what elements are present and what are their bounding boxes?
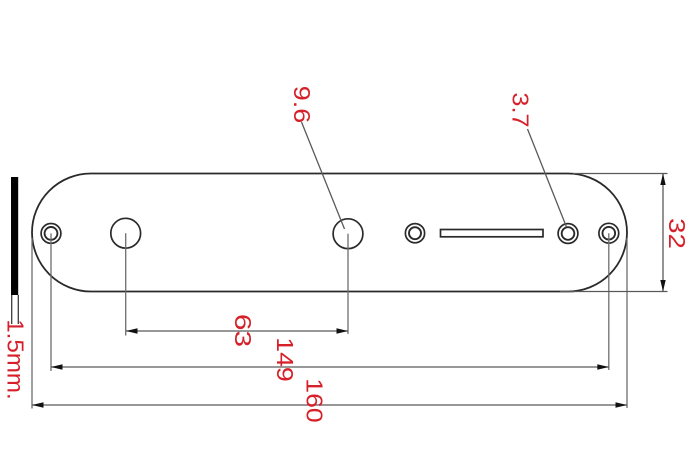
3.7 hole outer	[558, 224, 578, 244]
svg-text:32: 32	[663, 218, 688, 249]
switch mounting hole inner	[409, 227, 421, 239]
arrow 32 top	[660, 174, 665, 186]
plate outline (stadium shape)	[32, 174, 627, 292]
arrow 160 right	[616, 402, 628, 407]
extension line pot2	[347, 234, 349, 334]
extension line screw left	[50, 233, 52, 371]
pot hole 1	[111, 218, 141, 248]
thickness bar extension line left	[11, 295, 13, 324]
svg-text:1.5mm.: 1.5mm.	[3, 319, 28, 400]
svg-text:160: 160	[301, 378, 327, 422]
leader line 3.7	[528, 129, 567, 227]
svg-text:9.6: 9.6	[289, 86, 315, 123]
arrow 149 left	[51, 364, 63, 369]
extension line 32 bottom	[560, 291, 668, 293]
right screw hole outer	[599, 223, 619, 243]
dimension line 32	[662, 174, 664, 292]
side view thickness bar (1.5mm)	[11, 177, 18, 295]
thickness bar extension line right	[17, 295, 19, 324]
right screw hole inner	[603, 227, 616, 240]
dimension line 149	[51, 366, 609, 368]
arrow 32 bottom	[660, 280, 665, 292]
3.7 hole inner	[562, 227, 575, 240]
dimension line 63	[126, 330, 348, 332]
switch mounting hole outer	[405, 224, 424, 243]
arrow 63 right	[337, 328, 349, 333]
arrow 63 left	[126, 328, 138, 333]
extension line screw right	[608, 233, 610, 370]
arrow 160 left	[32, 402, 44, 407]
left screw hole outer	[41, 224, 61, 244]
switch slot	[441, 230, 544, 237]
extension line plate right	[626, 238, 628, 408]
extension line plate left	[31, 238, 33, 409]
arrow 149 right	[597, 364, 609, 369]
svg-text:63: 63	[230, 314, 256, 347]
dimension line 160	[32, 404, 627, 406]
leader line 9.6	[302, 122, 345, 229]
pot hole 2	[333, 219, 363, 249]
left screw hole inner	[45, 227, 58, 240]
svg-text:149: 149	[272, 337, 298, 381]
extension line pot1	[125, 233, 127, 335]
extension line 32 top	[573, 173, 668, 175]
svg-text:3.7: 3.7	[507, 92, 533, 127]
